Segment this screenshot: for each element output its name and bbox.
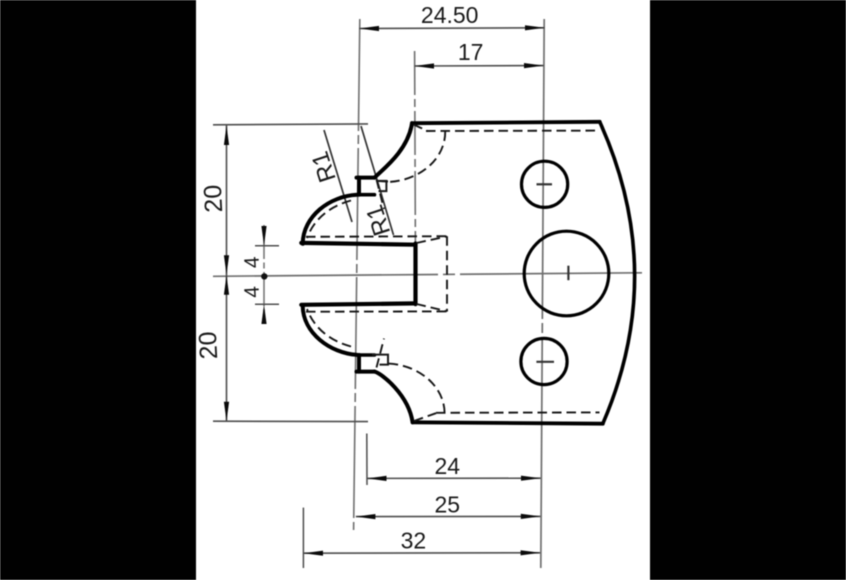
right black mask — [650, 0, 846, 580]
arrow 32 right — [521, 550, 541, 555]
4-dim vertical chain line x=264 — [263, 225, 265, 324]
hole top small circle — [522, 161, 568, 207]
dimension line 32 — [303, 552, 540, 554]
notch upper horizontal lower y=355 — [358, 353, 375, 357]
white drawing sheet — [196, 0, 650, 580]
arrow 20top down — [224, 255, 229, 274]
svg-text:25: 25 — [435, 491, 461, 517]
top extension line y=124.5 for 20 dim — [213, 123, 368, 126]
dashed vertical x=447 — [446, 236, 448, 311]
svg-text:24: 24 — [435, 453, 461, 479]
part top edge — [412, 122, 600, 123]
arrow 17 left — [414, 63, 434, 68]
inner dashed arc upper bump — [307, 201, 351, 239]
bottom extension line y=421.4 for 20 dim — [213, 420, 368, 422]
vertical extension line x=415 for dim 17 / slot edge — [414, 51, 417, 245]
vertical reference chain line left (x~360 top to ~353.5 bottom) — [354, 19, 360, 530]
horizontal centerline — [213, 273, 642, 277]
extension line for 24 (x=366.9) — [366, 434, 368, 486]
arrow 24 right — [521, 476, 541, 481]
svg-text:32: 32 — [401, 528, 427, 554]
tick in bottom hole — [536, 361, 554, 363]
arrow 20bot up — [224, 275, 229, 295]
dashed connector at bottom-left corner — [414, 413, 436, 421]
svg-text:24.50: 24.50 — [421, 2, 479, 28]
arrowheads — [224, 25, 545, 556]
svg-text:20: 20 — [194, 331, 223, 360]
ledge upper y=177.6 — [357, 176, 375, 180]
notch lower horizontal upper y=194.7 — [358, 193, 375, 197]
arrow 32 left — [303, 551, 323, 556]
tooth rectangle upper (medium weight) — [372, 181, 388, 365]
hole center large circle — [524, 231, 609, 316]
tick in large hole — [567, 266, 569, 281]
inner dashed arc lower bump — [307, 309, 351, 347]
holes — [521, 161, 609, 384]
dimension line 24 — [367, 477, 541, 479]
arrow 4 bottom (points up, below line) — [261, 305, 266, 325]
dashed connector at top-left corner — [414, 125, 428, 131]
svg-text:4: 4 — [241, 256, 265, 269]
leader line R1 upper — [324, 130, 352, 222]
big dashed arc lower (ghost cove) — [388, 364, 445, 414]
dashed horizontal y=236.5 — [306, 235, 447, 238]
bump arc lower — [303, 306, 357, 355]
cove arc upper — [375, 123, 413, 177]
tick in top hole — [537, 183, 553, 185]
hole bottom small circle — [521, 338, 567, 384]
dimension line 25 — [356, 515, 541, 517]
part bottom edge — [413, 422, 603, 423]
extension line for 32 (x=303.4) — [302, 508, 304, 568]
origin dot — [261, 273, 267, 279]
dimension line 20 top + 20 bottom (x=226.5) — [226, 125, 228, 421]
notch vertical lower x=359 — [357, 355, 361, 372]
left black mask — [0, 0, 196, 580]
steep dashed ghost lower — [377, 339, 385, 368]
arrow 4 top (points down, above line) — [261, 226, 266, 246]
part right edge arc — [600, 122, 635, 424]
dimension line 24.50 — [359, 27, 544, 30]
dashed slant slot bottom right — [417, 304, 448, 311]
arrow 25 right — [521, 514, 541, 519]
bump arc upper — [303, 195, 357, 244]
notch vertical upper x=359 — [357, 178, 361, 195]
dashed tail upper — [376, 180, 388, 183]
arrow 24.50 right — [525, 25, 545, 30]
4-dim extension tick bottom y=304.3 — [255, 303, 279, 305]
ledge lower y=371.6 — [357, 370, 375, 374]
arrow 17 right — [524, 63, 544, 68]
vertical chain line through holes (right) — [541, 19, 544, 568]
arrow 20top up — [224, 126, 229, 146]
arrow 25 left — [356, 514, 376, 519]
arrow 24 left — [367, 476, 387, 481]
steep dashed ghost upper — [377, 180, 385, 210]
slot bottom edge — [301, 303, 415, 304]
arrow 20bot down — [224, 402, 229, 422]
svg-text:4: 4 — [241, 285, 265, 298]
dashed line under top edge — [426, 130, 600, 132]
4-dim extension tick top y=245.7 — [255, 245, 279, 247]
slot top edge — [301, 243, 415, 245]
dimension line 17 — [414, 65, 543, 67]
cove arc lower — [375, 372, 413, 423]
slot right edge — [413, 244, 417, 305]
arrow 24.50 left — [359, 26, 379, 31]
dashed slant slot top right — [417, 236, 448, 243]
dashed line above bottom edge — [436, 411, 600, 413]
big dashed arc upper (ghost cove) — [388, 132, 445, 183]
tooth rectangle lower — [372, 355, 388, 365]
leader line R1 lower — [361, 126, 394, 235]
svg-text:20: 20 — [199, 184, 228, 213]
svg-text:17: 17 — [458, 39, 484, 65]
dashed horizontal y=311.5 — [306, 310, 447, 312]
